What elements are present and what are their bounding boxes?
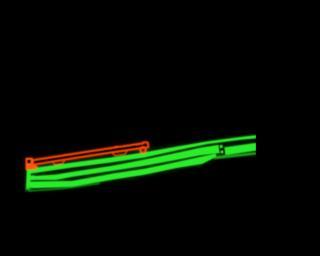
- green stripe A (top): [28, 135, 256, 174]
- rear wheel: [140, 147, 145, 152]
- dark sight block on stripe B: [218, 144, 225, 156]
- cab: [26, 158, 33, 170]
- green stripe B (middle): [28, 143, 256, 180]
- small bright tab on stripe B left end: [30, 175, 34, 180]
- dim continuation of stripe C right of merge: [214, 152, 256, 159]
- orange truck: bed (hollow outlined, with end lip): [33, 142, 148, 165]
- small nub on bed top (left): [63, 154, 66, 156]
- core layer: [25, 135, 257, 192]
- under-bed element mid: [112, 151, 127, 156]
- halo layer (glow): [26, 135, 256, 189]
- small nub on bed top (mid): [114, 146, 118, 148]
- left end cap: [26, 168, 31, 190]
- front wheel: [33, 165, 38, 170]
- dim tail below left end: [25, 187, 34, 192]
- green stripe C (bottom): [28, 154, 216, 189]
- faint lower rail line below stripe C (left): [28, 183, 100, 193]
- soft bloom layer: [26, 135, 256, 189]
- under-bed element near cab: [53, 160, 65, 164]
